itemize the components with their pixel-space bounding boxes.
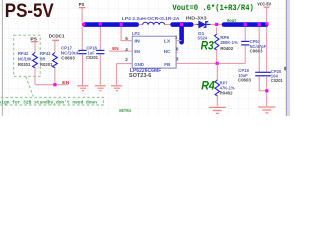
resistor RP43 bbox=[53, 53, 58, 85]
svg-text:DCDC1: DCDC1 bbox=[49, 34, 65, 39]
node junction PS/CP17 bbox=[82, 23, 85, 26]
wire Vin bus segment 1 bbox=[85, 22, 137, 27]
power port DCDC1 bbox=[49, 34, 65, 41]
svg-text:RP43: RP43 bbox=[40, 51, 51, 56]
svg-text:LX: LX bbox=[164, 39, 172, 44]
wire LX thick drop bbox=[179, 25, 184, 43]
wire VCC drop bbox=[266, 7, 268, 22]
wire CP20 drop bbox=[266, 27, 268, 72]
wire R3 top bbox=[216, 27, 218, 34]
node junction CP19 bbox=[258, 23, 261, 26]
wire EN stub bbox=[109, 50, 132, 52]
svg-text:EN: EN bbox=[112, 46, 119, 51]
wire FB rail bbox=[176, 62, 245, 64]
pin number 5 bbox=[125, 36, 128, 41]
svg-text:GND: GND bbox=[134, 62, 144, 67]
svg-text:EN: EN bbox=[134, 49, 140, 54]
pin number 4 bbox=[125, 47, 128, 52]
pin name GND bbox=[134, 62, 144, 67]
callout leader line bbox=[26, 77, 34, 97]
svg-text:5: 5 bbox=[125, 36, 128, 41]
label RP43 designator bbox=[40, 51, 53, 67]
svg-text:NC/10K: NC/10K bbox=[18, 56, 33, 61]
pin name IN bbox=[134, 39, 140, 44]
wire R4 top bbox=[216, 63, 218, 80]
wire bus to CP17 bbox=[81, 27, 83, 50]
label SS24 value bbox=[198, 36, 208, 41]
net name NETR4 bbox=[119, 108, 131, 114]
svg-text:NETR4: NETR4 bbox=[119, 108, 131, 114]
pin name FB bbox=[164, 62, 171, 67]
pin number 1 bbox=[175, 34, 178, 39]
label LP2 designator bbox=[132, 31, 140, 36]
svg-text:1: 1 bbox=[175, 34, 178, 39]
svg-text:R4: R4 bbox=[201, 78, 215, 92]
resistor RP42 bbox=[33, 53, 38, 85]
svg-text:C0603: C0603 bbox=[250, 49, 263, 54]
label RP5 designator bbox=[220, 35, 238, 51]
op-amp U2 regulator body bbox=[132, 36, 176, 68]
capacitor CP17 bbox=[78, 50, 86, 85]
svg-text:VCC-5V: VCC-5V bbox=[257, 2, 272, 7]
label CP19 designator bbox=[238, 68, 251, 82]
label D1 designator bbox=[198, 31, 205, 36]
svg-text:C0603: C0603 bbox=[61, 56, 75, 61]
scrollbar mark bbox=[284, 67, 286, 71]
wire inductor to bus2 bbox=[165, 24, 171, 26]
svg-text:RP42: RP42 bbox=[18, 51, 29, 56]
svg-text:SOT23-6: SOT23-6 bbox=[129, 73, 152, 79]
label LP6226C6MF value bbox=[130, 68, 162, 74]
capacitor CP18 bbox=[96, 50, 104, 85]
inductor LP4 bbox=[143, 22, 165, 24]
diode D1 schottky bbox=[197, 21, 211, 28]
svg-text:C0201: C0201 bbox=[86, 55, 98, 60]
svg-text:LP2: LP2 bbox=[132, 31, 140, 36]
svg-text:C0201: C0201 bbox=[271, 78, 283, 83]
wire diode to bus3 bbox=[211, 23, 222, 25]
label CP63 designator bbox=[250, 39, 267, 53]
svg-text:RP5: RP5 bbox=[220, 35, 229, 40]
svg-text:LP4 2.2uH-OCR<0.1R-2A: LP4 2.2uH-OCR<0.1R-2A bbox=[122, 16, 180, 21]
title PS-5V bbox=[5, 0, 54, 22]
svg-text:Vout: Vout bbox=[227, 18, 237, 24]
svg-text:0R: 0R bbox=[40, 56, 46, 61]
wire LX pin stub bbox=[176, 40, 182, 42]
label LP4 inductor designator/value bbox=[122, 16, 180, 21]
pin number 3 bbox=[176, 57, 179, 62]
node junction VCC bbox=[265, 22, 268, 25]
ground CP17 bbox=[77, 86, 88, 91]
ground CP18 bbox=[95, 86, 106, 91]
svg-text:380K-1%: 380K-1% bbox=[220, 40, 238, 45]
pin number 6 bbox=[176, 47, 179, 52]
svg-text:CP17: CP17 bbox=[61, 46, 72, 51]
capacitor CP19 bbox=[255, 72, 267, 91]
net label EN (bottom) bbox=[62, 80, 70, 85]
ground U2 bbox=[111, 86, 122, 91]
svg-text:IN: IN bbox=[134, 39, 140, 44]
node junction IN pin bbox=[120, 23, 123, 26]
svg-text:PS: PS bbox=[79, 2, 85, 7]
ground CP20 bbox=[258, 107, 275, 113]
power port PS (top) bbox=[79, 2, 86, 8]
label SOT23-6 footprint bbox=[129, 73, 152, 79]
wire CP19 drop bbox=[258, 27, 260, 72]
highlight dashed box RP42 bbox=[14, 35, 41, 76]
ground R4 bbox=[209, 107, 226, 113]
svg-text:EN: EN bbox=[62, 80, 70, 85]
svg-text:47K-1%: 47K-1% bbox=[220, 85, 235, 90]
wire LX bus segment 2 bbox=[173, 22, 192, 27]
wire bus to IN pin elbow bbox=[121, 27, 132, 41]
svg-text:CP18: CP18 bbox=[86, 46, 97, 51]
svg-text:FB: FB bbox=[164, 62, 171, 67]
power port PS (lower) bbox=[30, 36, 38, 41]
pin name EN bbox=[134, 49, 140, 54]
wire GND pin elbow bbox=[117, 64, 133, 85]
wire PS to RP42 bbox=[34, 42, 36, 53]
note Vout formula bbox=[172, 4, 253, 13]
svg-text:3: 3 bbox=[176, 57, 179, 62]
node junction RP43/EN bbox=[53, 83, 56, 86]
resistor R3 RP5 bbox=[215, 34, 219, 63]
label IND-3X3 footprint bbox=[186, 16, 207, 21]
note text standby bbox=[0, 99, 97, 105]
svg-text:PS-5V: PS-5V bbox=[5, 0, 54, 22]
svg-text:C0603: C0603 bbox=[238, 78, 251, 83]
net label Vout bbox=[227, 18, 237, 24]
label R4 net name bbox=[201, 78, 215, 92]
node junction CP63 bbox=[244, 23, 247, 26]
svg-text:R0201: R0201 bbox=[18, 62, 31, 67]
node junction CP18 bbox=[99, 22, 102, 25]
capacitor CP63 bbox=[241, 27, 249, 64]
capacitor CP20 bbox=[263, 72, 271, 106]
wire EN net (bottom) bbox=[35, 84, 68, 86]
label R3 net name bbox=[201, 38, 214, 52]
pin number 2 bbox=[125, 57, 128, 62]
pin name LX bbox=[164, 39, 172, 44]
wire DCDC1 to RP43 bbox=[54, 40, 56, 52]
svg-text:2: 2 bbox=[125, 57, 128, 62]
label RP42 designator bbox=[18, 51, 33, 67]
svg-text:IND-3X3: IND-3X3 bbox=[186, 16, 207, 21]
svg-text:6: 6 bbox=[176, 47, 179, 52]
label CP18 designator bbox=[86, 46, 98, 61]
svg-text:RP7: RP7 bbox=[220, 80, 228, 85]
sheet right border shadow bbox=[286, 0, 290, 116]
node junction CP19/CP20 bbox=[265, 89, 268, 92]
svg-text:R3: R3 bbox=[201, 38, 214, 52]
wire bus2 to diode bbox=[193, 23, 196, 25]
pin name NC bbox=[164, 49, 171, 54]
sheet left border bbox=[1, 0, 4, 116]
note box dashed bbox=[0, 97, 104, 105]
wire Vout bus segment 3 bbox=[224, 22, 266, 27]
net label EN at U2 bbox=[112, 46, 119, 51]
node junction LX bbox=[180, 23, 183, 26]
label CP17 designator bbox=[61, 46, 80, 61]
svg-text:R0201: R0201 bbox=[40, 62, 53, 67]
wire PS to bus bbox=[81, 8, 83, 23]
svg-text:R0402: R0402 bbox=[220, 90, 233, 95]
node junction R3 top bbox=[215, 23, 218, 26]
node junction FB/R4 bbox=[216, 62, 219, 65]
label RP7 designator bbox=[220, 80, 235, 95]
svg-text:NC/10uF: NC/10uF bbox=[61, 51, 80, 56]
wire bus to CP18 bbox=[99, 27, 101, 50]
wire bus1 to inductor bbox=[139, 24, 143, 26]
label CP20 designator bbox=[271, 69, 283, 83]
svg-text:R0402: R0402 bbox=[220, 46, 233, 51]
svg-text:NC: NC bbox=[164, 49, 171, 54]
power port VCC-5V bbox=[257, 2, 272, 8]
svg-text:PS: PS bbox=[30, 36, 36, 41]
svg-text:Vout=0 .6*(1+R3/R4): Vout=0 .6*(1+R3/R4) bbox=[172, 4, 253, 13]
resistor R4 RP7 bbox=[215, 80, 219, 106]
svg-text:sign for 32B standby,don't nee: sign for 32B standby,don't need down bbox=[0, 99, 97, 105]
wire NC pin nub bbox=[176, 51, 178, 53]
